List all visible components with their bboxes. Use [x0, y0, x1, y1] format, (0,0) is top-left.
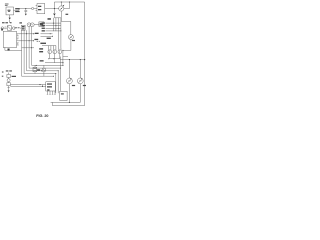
box D bottom right of C [60, 91, 67, 100]
node dot at capacitor C5 [25, 8, 26, 9]
filled tab top-left of U12 [1, 28, 3, 30]
box bx1 [7, 26, 11, 30]
right bus vertical [84, 2, 86, 106]
text inside box U10 [8, 10, 11, 11]
box C bottom middle [46, 82, 56, 91]
label above box U10 [5, 3, 9, 6]
open circle node [31, 7, 33, 9]
emitter rail [50, 58, 60, 60]
bottom rail [51, 101, 81, 103]
matrix row 3 ground [22, 47, 34, 49]
svg-text:3: 3 [17, 43, 18, 45]
wire M1 right up to bus [64, 2, 70, 9]
wire to open node [26, 8, 32, 10]
label right of box U10 [15, 8, 19, 9]
box bx3 [39, 22, 44, 27]
lamp L2 [68, 60, 70, 78]
M1 top stub to bus [60, 2, 62, 6]
feed wire M1 bottom to lamp L1 [61, 11, 71, 34]
vertical links right [59, 57, 61, 92]
text inside U11 [38, 6, 41, 7]
chain side labels [12, 76, 16, 77]
box B3 [33, 67, 37, 72]
horizontal H59 [60, 59, 84, 61]
small transistor q2 [13, 27, 16, 30]
link from U10 ground to row [9, 20, 11, 23]
matrix row 1 [19, 33, 34, 35]
matrix vertical bus lines [22, 30, 54, 76]
double circle crystal Y1 [27, 23, 31, 27]
wire below L1 [63, 40, 71, 51]
wire Y1 to bx3 [34, 24, 39, 26]
box bx2 [21, 25, 25, 30]
transistor Q3 [48, 50, 52, 54]
svg-text:2: 2 [17, 39, 18, 41]
box U11 [37, 4, 45, 14]
pin ticks box U11 [36, 6, 37, 11]
bottom bus return [52, 102, 84, 105]
top bus wire [54, 1, 84, 3]
label 90 [19, 22, 22, 23]
matrix row 2 [19, 40, 34, 42]
capacitor C5 [24, 9, 27, 14]
motor M1 circle [59, 6, 64, 11]
marks m1 [5, 27, 7, 29]
lamp L1 [68, 35, 73, 40]
svg-text:FIG. 20: FIG. 20 [36, 114, 48, 118]
ground arrow below U10 [9, 15, 11, 18]
connector wires of row [4, 27, 22, 29]
rails to box C [10, 84, 45, 86]
U12 right pins [17, 34, 19, 45]
svg-text:1: 1 [17, 34, 18, 36]
label 96 [66, 14, 69, 15]
transistor row Q3..Q5 [47, 38, 51, 39]
junction dots on returns [41, 70, 42, 71]
wire U11 to motor M1 [45, 8, 59, 10]
lower rails [45, 62, 63, 64]
labels above row [2, 22, 5, 23]
box C bottom pins [48, 91, 56, 94]
IC box U12 left [3, 31, 16, 47]
lamp L3 [79, 60, 81, 78]
transistor Q4 [53, 50, 57, 54]
text dashes [15, 26, 17, 29]
wire U10 to C5 node [14, 9, 26, 11]
transistor Q5 [58, 50, 62, 54]
filled block below U12 [8, 49, 10, 51]
wire node to box U11 [34, 8, 37, 10]
small transistor q1 [1, 27, 4, 30]
circle C2 [42, 68, 46, 72]
zener branch V54 [53, 2, 55, 13]
left chain R/C stack [6, 70, 9, 71]
label rows mid [48, 18, 51, 20]
box U10 top-left [6, 7, 14, 15]
collector feed verticals [55, 17, 61, 19]
U12 bottom ground trace [5, 48, 22, 51]
